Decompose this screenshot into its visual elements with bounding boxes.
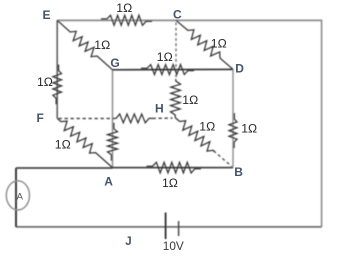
ammeter A1 circle (6, 181, 29, 210)
resistor R3 C-D zigzag (176, 20, 233, 69)
svg-text:1Ω: 1Ω (157, 50, 173, 64)
wire left to node A (16, 167, 113, 169)
wire H-B dashed part (214, 151, 232, 167)
wire G-D horizontal (113, 68, 234, 70)
resistor R6 C-H zigzag (171, 79, 181, 118)
wire right edge (321, 20, 323, 227)
svg-text:1Ω: 1Ω (94, 38, 110, 52)
battery J long plate (165, 213, 167, 240)
svg-text:1Ω: 1Ω (55, 138, 71, 152)
wire left edge (15, 168, 17, 227)
resistor R12 A-B zigzag (147, 162, 202, 173)
svg-text:F: F (37, 111, 44, 125)
resistor R2 E-G zigzag (57, 20, 112, 70)
svg-text:E: E (43, 8, 51, 22)
wire G-A vertical (112, 70, 114, 168)
svg-text:1Ω: 1Ω (162, 176, 178, 190)
svg-text:1Ω: 1Ω (211, 37, 227, 51)
wire F-H dashed right part (153, 117, 173, 119)
resistor R8 F-H zigzag (115, 114, 153, 123)
resistor R5 E-F zigzag (53, 65, 62, 105)
wire E-F vertical (56, 20, 58, 118)
wire A-B horizontal (113, 167, 234, 169)
svg-text:D: D (235, 61, 244, 75)
battery J short plate (178, 221, 180, 236)
svg-text:A: A (104, 174, 113, 188)
wire top edge (C to top-right corner) (57, 19, 321, 21)
wire C-H dashed upper part (175, 23, 177, 80)
svg-text:H: H (155, 101, 164, 115)
svg-text:10V: 10V (163, 239, 184, 253)
resistor R9 F-A zigzag (57, 118, 112, 167)
resistor R7 D-B zigzag (229, 113, 237, 148)
svg-text:G: G (110, 56, 119, 70)
wire F-H dashed left part (59, 118, 116, 120)
resistor R1 E-C zigzag (101, 15, 152, 25)
wire D-B vertical (232, 69, 234, 167)
svg-text:1Ω: 1Ω (37, 75, 53, 89)
svg-text:C: C (173, 7, 182, 21)
svg-text:B: B (234, 165, 243, 179)
wire bottom edge (16, 226, 322, 228)
svg-text:J: J (125, 236, 131, 248)
resistor R4 G-D zigzag (141, 65, 194, 75)
svg-text:1Ω: 1Ω (199, 119, 215, 133)
resistor R10 G-A zigzag (108, 123, 118, 161)
resistor R11 H-B zigzag (175, 118, 215, 152)
svg-text:1Ω: 1Ω (116, 1, 132, 15)
svg-text:A: A (17, 191, 24, 202)
svg-text:1Ω: 1Ω (182, 93, 198, 107)
svg-text:1Ω: 1Ω (241, 121, 257, 135)
